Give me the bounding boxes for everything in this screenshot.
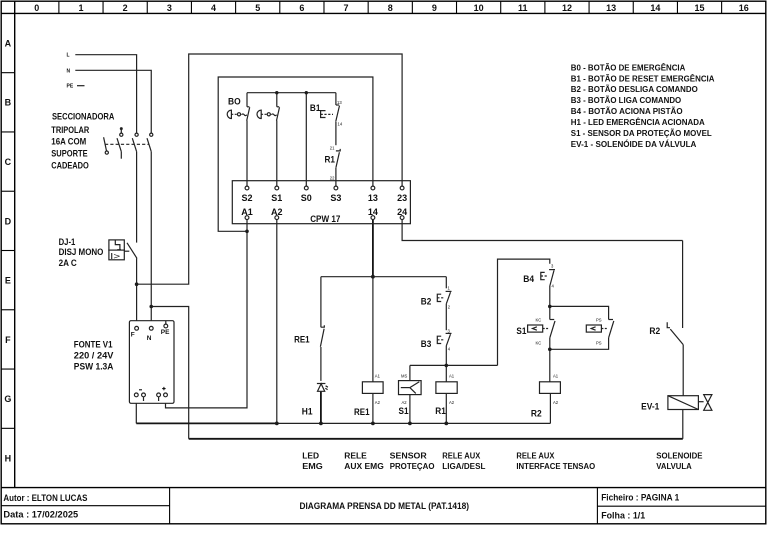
svg-text:L: L [67,53,70,59]
svg-text:A2: A2 [271,207,283,217]
svg-text:A1: A1 [449,374,455,379]
svg-text:PE: PE [161,329,170,336]
svg-text:220 / 24V: 220 / 24V [74,351,114,361]
svg-text:N: N [147,335,152,342]
svg-text:14: 14 [368,207,378,217]
svg-text:22: 22 [330,176,335,181]
svg-text:B1: B1 [310,103,321,113]
svg-text:13: 13 [606,3,616,13]
svg-text:B0 - BOTÃO DE EMERGÊNCIA: B0 - BOTÃO DE EMERGÊNCIA [571,61,686,72]
svg-text:B2: B2 [421,297,432,307]
svg-text:B3: B3 [421,339,432,349]
svg-text:Autor : ELTON LUCAS: Autor : ELTON LUCAS [3,493,87,503]
svg-text:4: 4 [211,3,216,13]
svg-text:S0: S0 [301,193,312,203]
svg-text:24: 24 [397,207,407,217]
svg-text:A: A [5,38,12,48]
svg-text:CPW 17: CPW 17 [310,214,340,224]
svg-text:MS: MS [401,374,407,379]
svg-text:EV-1 - SOLENÓIDE DA VÁLVULA: EV-1 - SOLENÓIDE DA VÁLVULA [571,138,697,149]
svg-text:R1: R1 [325,155,336,165]
svg-text:2A C: 2A C [59,258,78,268]
svg-text:SUPORTE: SUPORTE [51,149,87,159]
svg-text:I>: I> [110,252,120,261]
svg-text:B3 - BOTÃO LIGA COMANDO: B3 - BOTÃO LIGA COMANDO [571,95,682,105]
svg-text:0: 0 [34,3,39,13]
svg-text:5: 5 [255,3,260,13]
svg-text:6: 6 [299,3,304,13]
svg-text:9: 9 [432,3,437,13]
svg-text:SOLENOIDE: SOLENOIDE [656,451,702,461]
svg-text:16: 16 [739,3,749,13]
svg-text:Ficheiro : PAGINA 1: Ficheiro : PAGINA 1 [601,493,679,503]
svg-text:11: 11 [518,3,528,13]
svg-text:EV-1: EV-1 [641,401,659,411]
svg-text:DIAGRAMA PRENSA DD METAL (PAT.: DIAGRAMA PRENSA DD METAL (PAT.1418) [300,501,470,511]
svg-text:F: F [5,335,11,345]
svg-text:S1: S1 [271,193,282,203]
svg-text:23: 23 [397,193,407,203]
svg-text:C: C [5,157,12,167]
svg-text:AUX EMG: AUX EMG [344,461,384,471]
svg-text:B4: B4 [523,274,534,284]
svg-text:12: 12 [562,3,572,13]
svg-text:13: 13 [368,193,378,203]
svg-text:E: E [5,276,11,286]
svg-text:H: H [5,453,12,463]
svg-text:PE: PE [67,84,74,90]
svg-text:8: 8 [388,3,393,13]
svg-text:RELE AUX: RELE AUX [442,451,480,461]
svg-text:B1 - BOTÃO DE RESET EMERGÊNCIA: B1 - BOTÃO DE RESET EMERGÊNCIA [571,72,715,83]
svg-text:10: 10 [474,3,484,13]
svg-text:S2: S2 [241,193,252,203]
svg-text:Folha : 1/1: Folha : 1/1 [601,511,645,521]
svg-text:A2: A2 [553,400,559,405]
svg-text:DISJ MONO: DISJ MONO [59,247,104,257]
svg-text:PS: PS [596,318,602,323]
svg-text:TRIPOLAR: TRIPOLAR [51,125,89,135]
svg-text:3: 3 [167,3,172,13]
svg-text:LED: LED [302,451,319,461]
svg-text:RELE: RELE [344,451,367,461]
svg-text:H1: H1 [302,407,313,417]
svg-text:A2: A2 [449,400,455,405]
svg-text:PSW 1.3A: PSW 1.3A [74,361,114,371]
svg-text:13: 13 [337,100,342,105]
svg-text:R1: R1 [435,406,446,416]
svg-text:7: 7 [344,3,349,13]
svg-text:15: 15 [695,3,705,13]
svg-text:G: G [4,394,11,404]
svg-text:BO: BO [228,97,241,107]
svg-text:14: 14 [338,121,343,126]
svg-text:SECCIONADORA: SECCIONADORA [52,111,115,121]
svg-text:F: F [131,331,135,338]
svg-text:1: 1 [78,3,83,13]
svg-text:PS: PS [596,341,602,346]
svg-text:INTERFACE TENSAO: INTERFACE TENSAO [516,461,595,471]
svg-text:RE1: RE1 [294,335,310,345]
svg-text:S3: S3 [330,193,341,203]
svg-text:DJ-1: DJ-1 [59,237,76,247]
svg-text:LIGA/DESL: LIGA/DESL [442,461,485,471]
svg-text:B4 - BOTÃO ACIONA PISTÃO: B4 - BOTÃO ACIONA PISTÃO [571,106,683,116]
svg-text:S1: S1 [516,326,526,336]
svg-text:A2: A2 [402,400,408,405]
svg-text:A1: A1 [241,207,253,217]
svg-text:KC: KC [536,341,542,346]
svg-text:A1: A1 [375,374,381,379]
svg-text:14: 14 [650,3,660,13]
svg-text:D: D [5,216,12,226]
svg-text:B2 - BOTÃO DESLIGA COMANDO: B2 - BOTÃO DESLIGA COMANDO [571,84,698,94]
svg-text:RE1: RE1 [354,407,370,417]
svg-text:CADEADO: CADEADO [51,161,89,171]
svg-text:FONTE V1: FONTE V1 [74,340,113,350]
svg-text:16A COM: 16A COM [51,137,86,147]
svg-text:A2: A2 [375,400,381,405]
svg-text:VALVULA: VALVULA [656,461,691,471]
svg-text:S1 - SENSOR DA PROTEÇÃO MOVEL: S1 - SENSOR DA PROTEÇÃO MOVEL [571,128,712,138]
svg-text:S1: S1 [399,406,409,416]
svg-text:B: B [5,98,12,108]
svg-text:EMG: EMG [302,461,323,471]
svg-text:PROTEÇAO: PROTEÇAO [390,461,435,471]
svg-text:KC: KC [536,318,542,323]
svg-text:SENSOR: SENSOR [390,451,428,461]
svg-text:N: N [67,68,71,74]
svg-text:RELE AUX: RELE AUX [516,451,554,461]
svg-text:Data : 17/02/2025: Data : 17/02/2025 [3,510,78,520]
svg-text:21: 21 [330,146,335,151]
svg-text:R2: R2 [649,326,660,336]
svg-text:2: 2 [123,3,128,13]
svg-text:R2: R2 [531,409,542,419]
svg-text:A1: A1 [553,374,559,379]
svg-text:H1 - LED EMERGÊNCIA ACIONADA: H1 - LED EMERGÊNCIA ACIONADA [571,116,705,127]
